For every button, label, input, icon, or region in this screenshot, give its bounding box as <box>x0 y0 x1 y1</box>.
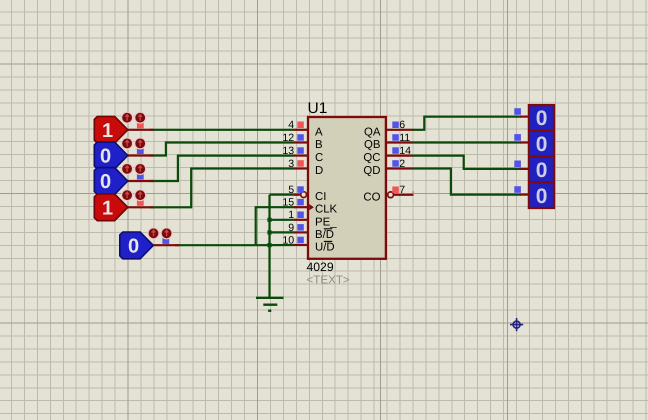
svg-text:CI: CI <box>315 191 326 203</box>
svg-text:2: 2 <box>399 158 405 170</box>
pin 4 (A) left stub + number + state square <box>288 119 308 131</box>
pin 13 (C) left stub + number + state square <box>282 145 308 157</box>
CLK clock chevron <box>309 204 314 210</box>
wire net QC: pin 14 to probe 3 <box>412 156 521 169</box>
wire net QD: pin 2 to probe 4 <box>412 169 521 195</box>
svg-text:12: 12 <box>282 132 294 144</box>
junction at ground net / B/D row <box>267 230 271 234</box>
wire net QB: pin 11 to probe 2 <box>412 141 521 143</box>
svg-text:B: B <box>315 139 323 151</box>
svg-text:11: 11 <box>399 132 410 144</box>
svg-text:QC: QC <box>363 152 380 164</box>
svg-text:1: 1 <box>102 120 113 142</box>
pin 7 (CO) right stub + number + state square <box>388 184 414 198</box>
LOGICSTATE input 1 (A) <box>94 112 154 144</box>
wire ground net vertical <box>268 195 270 298</box>
LOGICSTATE input 5 (CLK) <box>120 227 180 259</box>
svg-text:0: 0 <box>536 133 548 156</box>
svg-text:CLK: CLK <box>315 204 338 216</box>
svg-text:0: 0 <box>536 185 548 208</box>
svg-text:15: 15 <box>282 197 294 209</box>
svg-text:U/D: U/D <box>315 242 335 254</box>
svg-text:D: D <box>315 165 323 177</box>
svg-text:PE_: PE_ <box>315 216 337 228</box>
logic probe column (4 probes) <box>529 105 554 208</box>
op chip U1 body (4029) <box>308 117 386 259</box>
pin 3 (D) left stub + number + state square <box>288 158 308 170</box>
wire net B: logic state 2 to pin 12 <box>150 143 294 156</box>
wire net CLK: logic state 5 to pin 15 <box>175 244 256 246</box>
wire ground net to pin 5 (CI) <box>270 194 300 196</box>
svg-text:13: 13 <box>282 145 294 157</box>
svg-text:10: 10 <box>282 234 294 246</box>
svg-text:0: 0 <box>536 107 548 130</box>
svg-text:C: C <box>315 152 323 164</box>
svg-text:B/D: B/D <box>315 229 334 241</box>
wire net D: logic state 4 to pin 3 <box>150 169 294 208</box>
pin 9 (BD) left stub + number + state square <box>288 222 308 234</box>
wire ground net to pin 9 (B/D) <box>270 231 295 233</box>
pin 11 (QB) right stub + number + state square <box>386 132 413 144</box>
svg-text:QD: QD <box>363 165 380 177</box>
svg-text:14: 14 <box>399 145 411 157</box>
svg-text:<TEXT>: <TEXT> <box>307 273 350 286</box>
logic probe 3 indicator square + stub + digit <box>514 159 547 182</box>
pin 5 (CI) left stub + number + state square <box>288 184 306 198</box>
logic probe 2 indicator square + stub + digit <box>514 133 547 156</box>
logic probe 1 indicator square + stub + digit <box>514 107 547 130</box>
svg-text:QA: QA <box>364 126 381 138</box>
U1 pin name labels <box>315 126 381 253</box>
svg-text:0: 0 <box>128 236 139 258</box>
wire ground net to pin 1 (PE) <box>270 219 295 221</box>
junction at ground net / U/D row <box>267 243 271 247</box>
svg-text:U1: U1 <box>308 100 328 117</box>
logic probe 4 indicator square + stub + digit <box>514 185 547 208</box>
svg-text:0: 0 <box>100 146 111 168</box>
pin 15 (CLK) left stub + number + state square <box>282 197 308 209</box>
pin 6 (QA) right stub + number + state square <box>386 119 413 131</box>
LOGICSTATE input 2 (B) <box>94 137 154 169</box>
origin crosshair marker <box>510 318 523 331</box>
svg-text:1: 1 <box>102 198 113 220</box>
wire ground net to pin 10 (U/D) <box>256 244 294 246</box>
svg-text:6: 6 <box>399 119 405 131</box>
svg-text:A: A <box>315 126 323 138</box>
svg-text:0: 0 <box>100 171 111 193</box>
junction at ground net / PE row <box>267 218 271 222</box>
pin 2 (QD) right stub + number + state square <box>386 158 413 170</box>
svg-text:CO: CO <box>363 191 380 203</box>
svg-text:9: 9 <box>288 222 294 234</box>
wire net QA: pin 6 to probe 1 <box>412 117 521 130</box>
pin 14 (QC) right stub + number + state square <box>386 145 413 157</box>
pin 12 (B) left stub + number + state square <box>282 132 308 144</box>
svg-text:QB: QB <box>364 139 380 151</box>
ground <box>256 298 284 311</box>
pin 10 (UD) left stub + number + state square <box>282 234 308 246</box>
svg-text:4: 4 <box>288 119 294 131</box>
svg-text:0: 0 <box>536 159 548 182</box>
wire net A: logic state 1 to pin 4 <box>150 129 294 131</box>
LOGICSTATE input 4 (D) <box>94 189 154 221</box>
svg-text:4029: 4029 <box>307 260 334 274</box>
svg-text:1: 1 <box>288 209 294 221</box>
svg-text:5: 5 <box>288 184 294 196</box>
wire net C: logic state 3 to pin 13 <box>150 156 294 181</box>
svg-text:7: 7 <box>399 184 405 196</box>
LOGICSTATE input 3 (C) <box>94 163 154 195</box>
pin 1 (PE) left stub + number + state square <box>288 209 308 221</box>
svg-text:3: 3 <box>288 158 294 170</box>
